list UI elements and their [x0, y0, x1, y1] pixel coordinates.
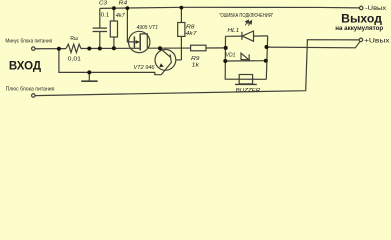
wire top rail (gate/minus output net) — [100, 7, 360, 8]
transistor VT2 — [155, 48, 176, 74]
svg-text:1k: 1k — [192, 62, 200, 68]
svg-text:Выход: Выход — [341, 13, 383, 25]
svg-text:VT2 946: VT2 946 — [134, 65, 155, 71]
buzzer — [235, 75, 257, 85]
wire drain of VT1 to R9 — [147, 47, 190, 49]
transistor VT1 p-MOSFET — [129, 31, 150, 52]
wire minus input rail — [35, 48, 66, 50]
svg-text:4905 VT1: 4905 VT1 — [137, 25, 159, 31]
svg-text:C3: C3 — [99, 1, 107, 7]
svg-text:Rш: Rш — [70, 36, 78, 42]
svg-text:Минус блока питания: Минус блока питания — [5, 38, 52, 44]
svg-text:VD1: VD1 — [226, 52, 236, 58]
svg-text:Плюс блока питания: Плюс блока питания — [6, 86, 55, 92]
wire ground branch — [59, 49, 161, 75]
ground symbol — [81, 72, 98, 81]
svg-text:-Uвых: -Uвых — [365, 6, 386, 12]
svg-text:0.1: 0.1 — [101, 13, 109, 19]
wire gate lead of VT1 — [127, 8, 135, 42]
capacitor C3 — [93, 8, 107, 48]
wire minus rail to VT1 — [81, 47, 141, 49]
resistor R4 — [110, 8, 117, 48]
terminal plus input — [32, 94, 36, 98]
junction dots — [57, 6, 269, 75]
wire right rail to +Uvyh — [267, 41, 361, 48]
resistor Rsh shunt zigzag — [66, 44, 81, 52]
diode VD1 — [241, 53, 249, 61]
svg-text:R4: R4 — [119, 1, 128, 7]
VT2 emitter arrow — [159, 63, 164, 67]
wire LED row — [226, 35, 242, 37]
svg-text:на аккумулятор: на аккумулятор — [335, 25, 383, 32]
svg-text:"ОШИБКА ПОДКЛЮЧЕНИЯ": "ОШИБКА ПОДКЛЮЧЕНИЯ" — [219, 13, 273, 19]
svg-text:BUZZER: BUZZER — [236, 88, 260, 94]
LED light rays — [245, 22, 250, 26]
LED HL1 — [242, 31, 268, 41]
VT1 body arrow — [136, 40, 140, 44]
wire R9 to error network — [206, 47, 226, 49]
svg-text:4k7: 4k7 — [116, 13, 126, 19]
wire error network left rail — [225, 36, 266, 79]
svg-text:HL1: HL1 — [228, 28, 240, 34]
wire plus path — [35, 40, 359, 96]
terminal minus input — [32, 47, 36, 51]
wire VD1 row — [225, 60, 265, 62]
svg-text:+Uвых: +Uвых — [364, 39, 390, 45]
wire error network right rail — [266, 36, 267, 79]
resistor R8 — [176, 8, 185, 60]
svg-text:R9: R9 — [191, 56, 200, 62]
svg-text:0,01: 0,01 — [68, 56, 81, 62]
LED ray arrowheads — [246, 20, 249, 23]
svg-text:R8: R8 — [186, 24, 195, 30]
svg-text:4k7: 4k7 — [186, 31, 198, 37]
terminal -Uvyh circle — [359, 6, 363, 10]
svg-text:ВХОД: ВХОД — [9, 60, 42, 73]
terminal +Uvyh — [359, 38, 363, 42]
resistor R9 — [191, 45, 206, 51]
